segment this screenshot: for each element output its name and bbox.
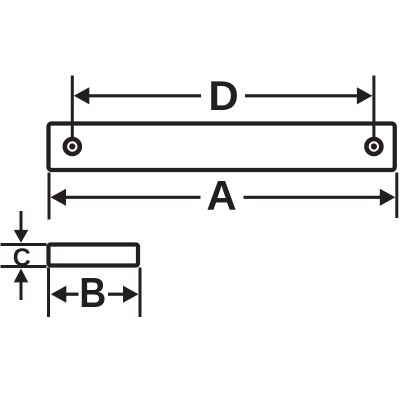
svg-text:B: B — [79, 269, 106, 316]
svg-text:A: A — [206, 172, 236, 219]
svg-text:C: C — [13, 244, 31, 272]
svg-text:D: D — [208, 72, 238, 119]
